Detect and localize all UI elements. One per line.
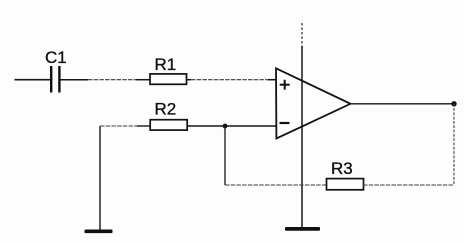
svg-text:C1: C1 [45,48,67,67]
svg-text:R1: R1 [155,55,177,74]
svg-text:R2: R2 [155,100,177,119]
svg-text:R3: R3 [331,159,353,178]
